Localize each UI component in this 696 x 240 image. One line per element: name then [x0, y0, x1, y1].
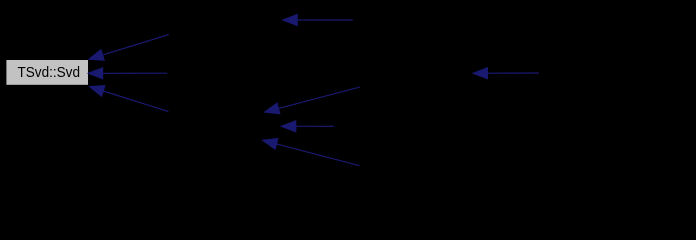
edge E6: hidden node -> hidden lower caller node (diagonal from lower right) [263, 139, 360, 166]
node TSvd::Svd (current node, grey) [6, 60, 88, 85]
edge E3: caller node (lower, hidden) -> TSvd::Svd [90, 86, 169, 112]
edge E5: hidden node -> hidden lower caller node (horizontal) [281, 121, 334, 132]
edge E1: caller node (top, hidden) -> TSvd::Svd [89, 35, 169, 61]
edge E7: hidden far-right node -> hidden mid-right node (horizontal) [473, 68, 539, 79]
edge E4: hidden node -> hidden lower caller node (diagonal from upper right) [265, 87, 360, 114]
svg-text:TSvd::Svd: TSvd::Svd [18, 64, 81, 81]
edge EA: hidden node -> hidden top caller node [283, 14, 353, 25]
edge E2: caller node (middle, hidden) -> TSvd::Svd [88, 68, 167, 79]
